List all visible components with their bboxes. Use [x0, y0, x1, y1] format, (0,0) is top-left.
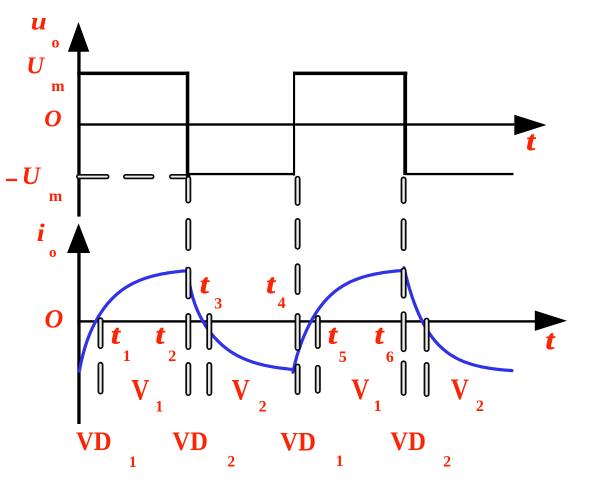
label i_o: [37, 219, 57, 261]
t axis (bottom) arrowhead: [535, 311, 567, 331]
square wave high segment period 2: [293, 72, 407, 76]
svg-text:1: 1: [129, 454, 137, 471]
label t (bottom axis): [546, 325, 557, 355]
square wave falling edge end of period 2: [403, 72, 407, 175]
svg-text:VD: VD: [172, 426, 208, 456]
svg-text:U: U: [22, 161, 42, 190]
label VD1 (first): [76, 426, 137, 471]
label t1: [111, 320, 131, 366]
label t (top axis): [526, 126, 537, 156]
i axis vertical line: [77, 250, 80, 424]
dashed marker column at t5: [316, 316, 320, 393]
svg-text:V: V: [131, 374, 149, 406]
svg-text:2: 2: [443, 454, 451, 471]
svg-text:2: 2: [168, 348, 176, 365]
i axis arrowhead: [67, 223, 90, 253]
svg-text:2: 2: [476, 398, 484, 415]
dashed marker column at second peak: [401, 177, 405, 395]
t axis (bottom) line: [77, 320, 535, 322]
svg-text:1: 1: [123, 348, 131, 365]
label O (bottom): [45, 304, 64, 333]
svg-text:o: o: [52, 34, 60, 51]
svg-text:V: V: [351, 373, 369, 405]
square wave rising edge at t4: [293, 72, 295, 176]
svg-text:VD: VD: [390, 426, 426, 456]
label t4: [266, 269, 285, 312]
dashed marker column at t4: [295, 177, 299, 395]
dashed marker column at second zero crossing: [424, 318, 428, 396]
svg-text:2: 2: [259, 399, 267, 416]
svg-text:VD: VD: [280, 427, 316, 457]
square wave low segment period 1: [188, 173, 295, 175]
svg-text:1: 1: [374, 398, 382, 415]
label t5: [328, 320, 347, 366]
svg-text:i: i: [37, 219, 46, 247]
square wave falling edge at t2: [186, 72, 190, 177]
svg-text:1: 1: [155, 399, 163, 416]
label t6: [375, 320, 394, 366]
svg-text:U: U: [26, 52, 45, 79]
minus Um dashed level dash 1: [77, 175, 109, 179]
label Um: [26, 52, 65, 95]
label V1 (first): [131, 374, 163, 416]
minus Um dashed level dash 2: [124, 175, 154, 179]
svg-text:m: m: [49, 188, 63, 205]
output current waveform (blue exponential curve): [79, 268, 512, 373]
label t2: [156, 320, 177, 366]
dashed marker column at t2: [186, 177, 190, 396]
label V2 (second): [451, 373, 484, 415]
label VD2 (first): [172, 426, 235, 471]
label VD1 (second): [280, 427, 343, 470]
label minus Um: [6, 161, 63, 205]
square wave low segment period 2: [405, 173, 514, 175]
square wave high segment period 1: [77, 72, 189, 76]
dashed marker column at t3: [207, 314, 211, 395]
u axis vertical line: [77, 48, 80, 217]
label V2 (first): [232, 374, 267, 416]
svg-text:m: m: [51, 78, 65, 95]
svg-text:o: o: [49, 245, 57, 261]
svg-text:3: 3: [214, 296, 222, 313]
svg-text:V: V: [232, 374, 250, 406]
t axis (top) arrowhead: [514, 115, 546, 135]
dashed marker column at t1: [98, 318, 102, 394]
label u_o: [31, 7, 60, 51]
label V1 (second): [351, 373, 381, 415]
svg-text:5: 5: [339, 349, 347, 366]
svg-text:1: 1: [336, 453, 344, 470]
u axis arrowhead: [68, 22, 89, 52]
svg-text:u: u: [31, 7, 47, 35]
label O (top): [44, 107, 61, 133]
svg-text:2: 2: [227, 454, 235, 471]
label t3: [200, 269, 222, 313]
svg-text:6: 6: [386, 349, 394, 366]
svg-text:O: O: [44, 107, 61, 133]
label VD2 (second): [390, 426, 451, 471]
svg-text:O: O: [45, 304, 64, 333]
svg-text:V: V: [451, 373, 469, 405]
svg-text:4: 4: [278, 295, 286, 312]
t axis (top) line: [77, 123, 514, 125]
svg-text:VD: VD: [76, 426, 112, 456]
minus Um dashed level dash 3: [170, 175, 190, 179]
